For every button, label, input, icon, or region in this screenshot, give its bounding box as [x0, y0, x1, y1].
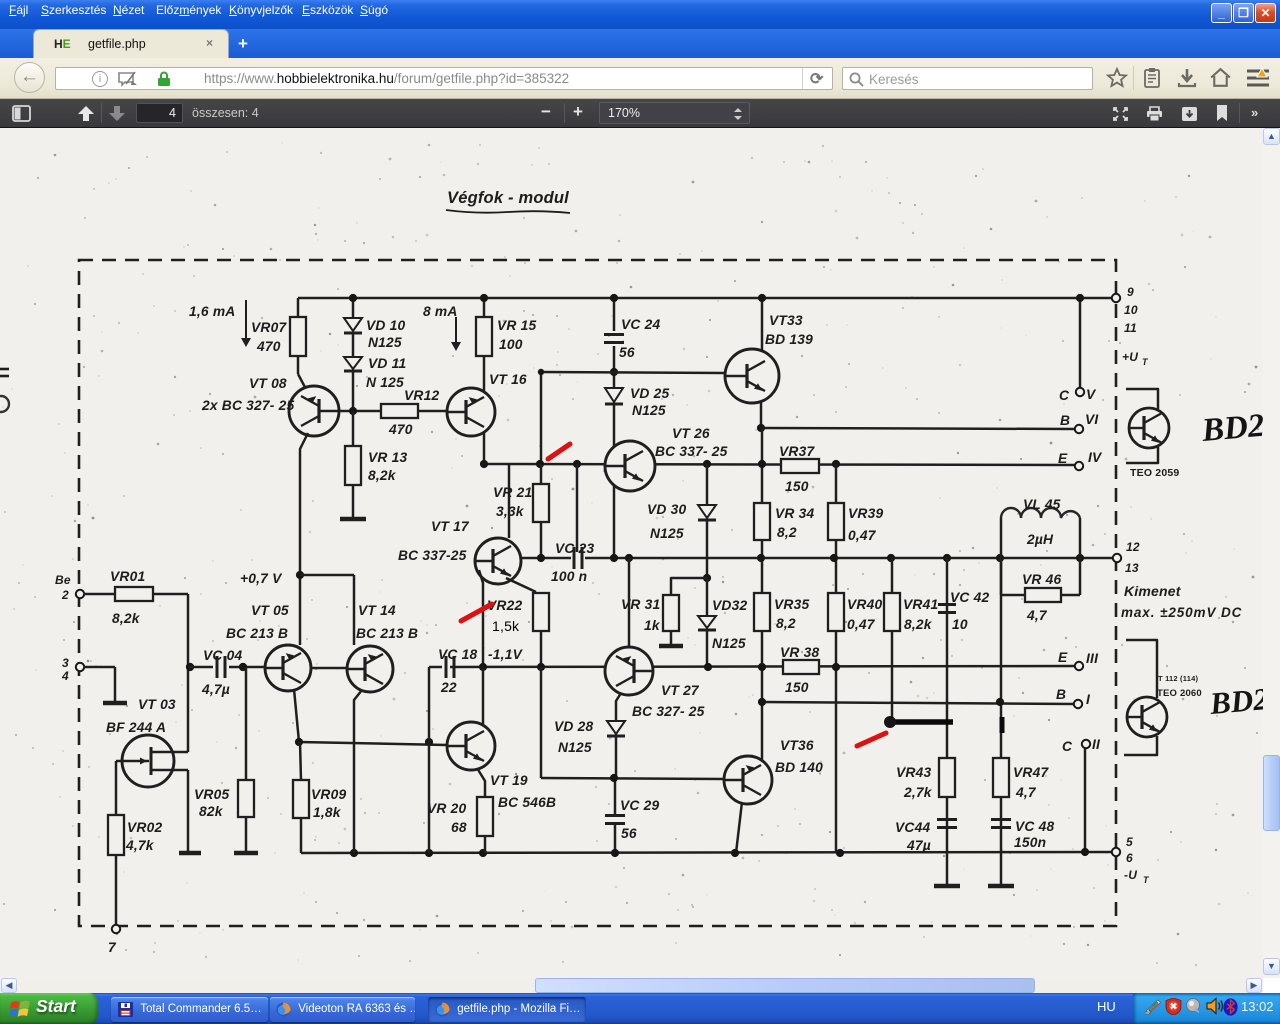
- svg-text:T: T: [1143, 875, 1150, 885]
- svg-text:4,7: 4,7: [1026, 608, 1048, 623]
- resistor VR07: [251, 317, 306, 356]
- svg-text:max. ±250mV DC: max. ±250mV DC: [1121, 605, 1242, 620]
- wire B I to terminal: [762, 702, 1075, 704]
- node top rail / diode chain: [349, 294, 357, 302]
- svg-text:1,6 mA: 1,6 mA: [189, 304, 235, 319]
- svg-text:VT 27: VT 27: [661, 683, 700, 698]
- diode VD11: [344, 356, 406, 390]
- svg-text:VC 42: VC 42: [950, 590, 989, 605]
- wire right column x762: [761, 428, 764, 760]
- svg-text:VR39: VR39: [848, 506, 883, 521]
- resistor VR39: [828, 503, 883, 543]
- svg-text:B: B: [1060, 413, 1070, 428]
- resistor VR13: [345, 446, 407, 485]
- node VD30/VR31 junction: [703, 574, 711, 582]
- svg-text:12: 12: [1126, 540, 1140, 554]
- svg-text:0,47: 0,47: [847, 617, 876, 632]
- wire VT03 gate to VR02: [116, 761, 122, 815]
- wire x188 column: [172, 594, 188, 852]
- svg-text:VR47: VR47: [1013, 765, 1049, 780]
- terminal 3 4: [61, 656, 84, 683]
- search field: [842, 67, 1093, 90]
- label -1,1V: [488, 647, 524, 662]
- svg-text:82k: 82k: [199, 804, 224, 819]
- svg-text:VR05: VR05: [194, 787, 229, 802]
- svg-text:VT 08: VT 08: [249, 376, 287, 391]
- wire VR02 to terminal 7: [115, 855, 118, 925]
- svg-text:BD2: BD2: [1208, 681, 1263, 721]
- label max 250mV DC: [1121, 605, 1242, 620]
- svg-text:VR01: VR01: [110, 569, 145, 584]
- svg-text:VI: VI: [1085, 412, 1099, 427]
- svg-text:4,7: 4,7: [1015, 785, 1037, 800]
- wire VR13 column and ground: [352, 411, 355, 518]
- wire VT33 emitter down: [760, 402, 763, 428]
- svg-text:VD 28: VD 28: [554, 719, 593, 734]
- external transistor TEO 2060: [1124, 640, 1202, 755]
- svg-text:47µ: 47µ: [906, 838, 931, 853]
- rail E IV wire: [484, 464, 1076, 465]
- browser window title/menu bar: [0, 0, 1280, 29]
- capacitor VC29: [605, 798, 659, 841]
- svg-text:4: 4: [61, 669, 69, 683]
- resistor VR12: [381, 388, 439, 437]
- resistor VR47: [993, 758, 1049, 800]
- svg-text:T: T: [1142, 357, 1149, 367]
- capacitor VC04: [201, 648, 242, 697]
- wire VR15 column: [483, 298, 486, 464]
- wire VT05 to VT14 link: [311, 667, 347, 670]
- system tray: [1133, 993, 1280, 1024]
- rail to output terminal 12 13: [1113, 540, 1140, 575]
- svg-text:13: 13: [1125, 561, 1139, 575]
- svg-text:470: 470: [388, 422, 413, 437]
- resistor VR05: [194, 780, 254, 819]
- vertical scrollbar: [1263, 128, 1280, 978]
- svg-text:III: III: [1086, 651, 1099, 666]
- node x541 top: [538, 369, 544, 375]
- start button: [0, 993, 98, 1024]
- resistor VR40: [828, 593, 882, 632]
- svg-text:VC 23: VC 23: [555, 541, 594, 556]
- svg-text:BC 213 B: BC 213 B: [226, 626, 288, 641]
- tab bar: [0, 29, 1280, 58]
- svg-text:BF 244 A: BF 244 A: [106, 720, 166, 735]
- svg-text:IV: IV: [1088, 450, 1103, 465]
- svg-text:VR41: VR41: [903, 597, 938, 612]
- toolbar icons: [1105, 66, 1129, 90]
- svg-text:56: 56: [619, 345, 635, 360]
- capacitor VC44: [895, 820, 957, 854]
- svg-text:4,7k: 4,7k: [125, 838, 155, 853]
- svg-text:VR40: VR40: [847, 597, 882, 612]
- svg-text:8,2k: 8,2k: [368, 468, 397, 483]
- svg-text:7: 7: [108, 940, 117, 955]
- svg-text:N125: N125: [558, 740, 592, 755]
- node VC24 bottom junction: [610, 368, 618, 376]
- svg-text:BC 337-25: BC 337-25: [398, 548, 467, 563]
- capacitor VC18: [438, 647, 477, 695]
- wire input to VR01: [84, 593, 188, 596]
- svg-text:150n: 150n: [1014, 835, 1046, 850]
- wire VT17 base down: [479, 570, 483, 667]
- wire VR05 column: [234, 667, 258, 853]
- node diode chain / base wire: [349, 407, 357, 415]
- svg-text:100 n: 100 n: [551, 569, 587, 584]
- node top rail / VT33: [758, 294, 766, 302]
- svg-text:BC 337- 25: BC 337- 25: [655, 444, 728, 459]
- wire VC24 column: [613, 298, 616, 447]
- transistor VT36: [724, 738, 823, 804]
- svg-text:BC 327- 25: BC 327- 25: [632, 704, 705, 719]
- svg-text:VR 46: VR 46: [1022, 572, 1061, 587]
- ground below VR13: [340, 517, 366, 522]
- svg-text:10: 10: [1124, 303, 1138, 317]
- transistor VT05: [226, 603, 311, 691]
- wire drop x577 to VC23: [576, 464, 579, 552]
- language indicator: [1097, 999, 1116, 1014]
- svg-text:Kimenet: Kimenet: [1124, 583, 1182, 599]
- wire column x1001: [1000, 558, 1003, 884]
- svg-text:2: 2: [61, 588, 69, 602]
- svg-text:VD 30: VD 30: [647, 502, 686, 517]
- svg-text:VC 48: VC 48: [1015, 819, 1054, 834]
- svg-text:VR 20: VR 20: [427, 801, 466, 816]
- current label 8 mA with arrow: [423, 304, 461, 351]
- svg-text:10: 10: [952, 617, 968, 632]
- wire +0,7V branch to VT14: [300, 575, 354, 645]
- svg-text:2x BC 327- 25: 2x BC 327- 25: [201, 398, 294, 413]
- svg-text:VT 14: VT 14: [358, 603, 396, 618]
- svg-text:100: 100: [499, 337, 523, 352]
- svg-text:4,7µ: 4,7µ: [201, 682, 230, 697]
- svg-text:2,7k: 2,7k: [903, 785, 933, 800]
- wire VD28 column: [615, 693, 621, 853]
- node +0,7V junction: [296, 571, 304, 579]
- diode VD10: [344, 318, 405, 350]
- wire VR22 bottom: [540, 631, 543, 667]
- svg-text:3: 3: [62, 656, 69, 670]
- svg-text:VR37: VR37: [779, 444, 815, 459]
- svg-text:8 mA: 8 mA: [423, 304, 458, 319]
- svg-text:5: 5: [1126, 835, 1133, 849]
- input terminal Be 2: [55, 573, 84, 602]
- wire mid link to VT33 base: [541, 372, 725, 373]
- node top rail / VC24: [610, 294, 618, 302]
- label Kimenet: [1124, 583, 1182, 599]
- resistor VR43: [896, 758, 955, 800]
- thick pen annotation wire: [884, 716, 1002, 733]
- svg-text:-U: -U: [1124, 868, 1137, 882]
- svg-text:8,2: 8,2: [776, 616, 796, 631]
- transistor VT26: [605, 426, 728, 491]
- wire VR07 column: [298, 298, 307, 391]
- wire VT17 collector: [508, 464, 511, 538]
- ground below VR43 chain: [934, 884, 960, 889]
- wire VT08 collector down: [300, 433, 308, 645]
- svg-text:Végfok - modul: Végfok - modul: [447, 189, 569, 207]
- svg-text:C: C: [1062, 739, 1073, 754]
- svg-text:VR35: VR35: [774, 597, 809, 612]
- transistor VT33: [725, 313, 813, 403]
- svg-text:VD 10: VD 10: [366, 318, 405, 333]
- inductor VL45: [1001, 497, 1080, 558]
- resistor VR31 with ground: [621, 578, 707, 646]
- svg-text:8,2k: 8,2k: [904, 617, 933, 632]
- nodes on E IV rail: [480, 460, 840, 468]
- back button: [14, 62, 45, 93]
- svg-text:VT 05: VT 05: [251, 603, 289, 618]
- svg-text:N 125: N 125: [366, 375, 404, 390]
- svg-text:VT 26: VT 26: [672, 426, 710, 441]
- nodes on output rail: [537, 554, 1084, 562]
- transistor VT16: [447, 372, 527, 436]
- svg-text:VT 19: VT 19: [490, 773, 528, 788]
- resistor VR02: [108, 815, 162, 855]
- resistor VR34: [754, 503, 814, 540]
- svg-text:VR09: VR09: [311, 787, 346, 802]
- horizontal scrollbar: [0, 978, 1263, 993]
- transistor VT03 JFET: [106, 697, 176, 787]
- svg-text:BD2: BD2: [1200, 408, 1263, 449]
- svg-text:N125: N125: [650, 526, 684, 541]
- resistor VR38 on rail: [780, 645, 819, 695]
- wire VT19 base rail: [299, 742, 447, 745]
- svg-text:8,2k: 8,2k: [112, 611, 141, 626]
- current label 1,6 mA with arrow: [189, 300, 251, 347]
- svg-text:150: 150: [785, 479, 809, 494]
- svg-text:2µH: 2µH: [1026, 532, 1054, 547]
- wire VT08 base to VR12: [339, 410, 447, 413]
- svg-text:VC 29: VC 29: [620, 798, 659, 813]
- svg-text:6: 6: [1126, 851, 1133, 865]
- svg-text:VC 04: VC 04: [203, 648, 242, 663]
- capacitor VC24: [604, 317, 660, 360]
- node VR05 top: [239, 663, 247, 671]
- diode VD25: [605, 386, 669, 418]
- rail E III wire: [429, 666, 1076, 667]
- diode VD28: [554, 719, 625, 755]
- svg-text:BD 140: BD 140: [775, 760, 823, 775]
- svg-text:VR 15: VR 15: [497, 318, 536, 333]
- terminal 9 10 11 +UT: [1112, 285, 1149, 367]
- svg-text:22: 22: [440, 680, 457, 695]
- resistor VR35: [754, 593, 809, 631]
- navigation toolbar: [0, 58, 1280, 99]
- svg-text:56: 56: [621, 826, 637, 841]
- diode VD32: [698, 578, 747, 667]
- svg-text:VC44: VC44: [895, 820, 930, 835]
- svg-text:E: E: [1058, 650, 1068, 665]
- terminal 7: [108, 925, 120, 955]
- svg-text:II: II: [1092, 737, 1101, 752]
- bottom rail -UT: [301, 852, 1114, 853]
- svg-text:VD32: VD32: [712, 598, 747, 613]
- svg-text:VT 03: VT 03: [138, 697, 176, 712]
- svg-text:VC 18: VC 18: [438, 647, 477, 662]
- resistor VR41: [884, 558, 938, 722]
- svg-text:+0,7 V: +0,7 V: [240, 571, 283, 586]
- resistor VR37 on rail: [779, 444, 819, 494]
- svg-text:VR07: VR07: [251, 320, 287, 335]
- terminal C II: [1062, 737, 1101, 754]
- wire column x836: [835, 464, 838, 853]
- svg-text:T 112 (114): T 112 (114): [1158, 674, 1198, 683]
- nodes on E III rail: [186, 663, 840, 671]
- external transistor TEO 2059: [1126, 389, 1179, 479]
- svg-text:VR12: VR12: [404, 388, 439, 403]
- node VT33 emitter / B wire: [757, 424, 765, 432]
- transistor VT14: [347, 603, 418, 692]
- svg-text:VR 38: VR 38: [780, 645, 819, 660]
- resistor VR21: [493, 464, 549, 558]
- terminal B VI: [1060, 412, 1099, 433]
- nodes on VT19 base rail: [295, 738, 433, 746]
- wire VT26 emitter down: [613, 486, 616, 558]
- wire diode chain column: [352, 298, 355, 410]
- resistor VR46: [1001, 558, 1080, 623]
- ground stub below VT03 source: [179, 851, 201, 856]
- wire top +UT rail: [298, 297, 1114, 300]
- svg-text:150: 150: [785, 680, 809, 695]
- nodes on B I wire: [758, 698, 1004, 706]
- label +0,7 V: [240, 571, 283, 586]
- wire VT17 emitter to VR22: [506, 578, 536, 592]
- svg-text:470: 470: [256, 339, 281, 354]
- red pen mark near node: [548, 444, 570, 459]
- windows xp taskbar: [0, 993, 1280, 1024]
- ground below VR47 chain: [988, 884, 1014, 889]
- terminal B I: [1056, 687, 1091, 708]
- scan edge fragments left: [0, 369, 9, 412]
- svg-text:C: C: [1059, 388, 1070, 403]
- wire VT27 collector up: [628, 558, 631, 647]
- resistor VR15: [476, 317, 536, 356]
- transistor VT08: [201, 376, 339, 436]
- svg-text:0,47: 0,47: [848, 528, 877, 543]
- handwritten BD2 lower: [1208, 681, 1270, 721]
- handwritten BD2 upper: [1200, 408, 1266, 449]
- resistor VR22 with red mark and 1,5k note: [461, 593, 549, 634]
- svg-text:8,2: 8,2: [777, 525, 797, 540]
- svg-text:VT33: VT33: [769, 313, 803, 328]
- wire B VI to terminal: [761, 428, 1075, 429]
- svg-text:3,3k: 3,3k: [496, 504, 525, 519]
- svg-text:E: E: [1058, 451, 1068, 466]
- diode VD30: [647, 464, 716, 578]
- svg-text:+U: +U: [1122, 350, 1138, 364]
- terminal C V: [1059, 294, 1097, 403]
- red pen mark lower: [857, 733, 886, 746]
- svg-text:VR 13: VR 13: [368, 450, 407, 465]
- svg-text:VT36: VT36: [780, 738, 814, 753]
- wire x542 drop to VT36 base wire: [540, 667, 543, 778]
- svg-text:N125: N125: [712, 636, 746, 651]
- svg-text:Be: Be: [55, 573, 71, 587]
- transistor VT17: [398, 519, 521, 584]
- capacitor VC23: [551, 541, 594, 584]
- svg-text:VT 16: VT 16: [489, 372, 527, 387]
- svg-text:11: 11: [1124, 321, 1137, 335]
- svg-text:BC 546B: BC 546B: [498, 795, 556, 810]
- task buttons: [111, 997, 268, 1022]
- node VD28 / base wire: [610, 774, 618, 782]
- svg-text:1,8k: 1,8k: [313, 805, 342, 820]
- capacitor VC42 column: [938, 558, 989, 884]
- svg-text:VC 24: VC 24: [621, 317, 660, 332]
- resistor VR01: [110, 569, 153, 626]
- svg-text:VR 31: VR 31: [621, 597, 660, 612]
- svg-text:1,5k: 1,5k: [492, 618, 520, 634]
- svg-text:BD 139: BD 139: [765, 332, 813, 347]
- transistor VT19: [447, 667, 556, 810]
- svg-text:VD 25: VD 25: [630, 386, 669, 401]
- svg-text:N125: N125: [632, 403, 666, 418]
- node top rail / VR15: [480, 294, 488, 302]
- svg-text:VT 17: VT 17: [431, 519, 470, 534]
- svg-text:TEO 2060: TEO 2060: [1157, 688, 1202, 699]
- wire C II column: [1084, 748, 1087, 852]
- pdf.js toolbar: [0, 99, 1280, 128]
- svg-text:-1,1V: -1,1V: [488, 647, 524, 662]
- wire VT36 base rail 778: [541, 778, 724, 779]
- wire terminal 3 4 to ground: [84, 667, 127, 703]
- wire VT33 collector: [761, 298, 764, 350]
- capacitor VC48: [991, 819, 1054, 850]
- svg-text:BC 213 B: BC 213 B: [356, 626, 418, 641]
- node VR01/VC04 junction: [186, 663, 194, 671]
- dashed module border: [79, 260, 1116, 926]
- resistor VR09: [293, 742, 346, 853]
- svg-text:N125: N125: [368, 335, 402, 350]
- wire VC18 column x429: [428, 667, 431, 853]
- terminal 5 6 -UT: [1112, 835, 1150, 885]
- terminal E III: [1058, 650, 1099, 670]
- wire VC04 row: [188, 666, 265, 669]
- svg-text:9: 9: [1127, 285, 1134, 299]
- transistor VT27: [605, 647, 705, 719]
- output rail 558: [521, 557, 1114, 560]
- svg-text:VD 11: VD 11: [368, 356, 406, 371]
- wire drop x541 to node: [540, 372, 543, 464]
- wire VT05 emitter down: [294, 689, 299, 742]
- svg-text:I: I: [1086, 692, 1091, 707]
- resistor VR20: [427, 768, 493, 853]
- svg-text:1k: 1k: [644, 618, 661, 633]
- svg-text:VR 21: VR 21: [493, 485, 532, 500]
- svg-text:VR 34: VR 34: [775, 506, 814, 521]
- wire VT14 emitter down: [354, 690, 362, 853]
- svg-text:68: 68: [451, 820, 467, 835]
- svg-text:VR43: VR43: [896, 765, 931, 780]
- nodes on bottom rail: [350, 848, 1089, 857]
- url field: [55, 67, 833, 90]
- terminal E IV: [1058, 450, 1103, 470]
- svg-text:VL 45: VL 45: [1023, 497, 1061, 512]
- svg-text:VR02: VR02: [127, 820, 162, 835]
- schematic title Végfok-modul: [446, 189, 570, 213]
- svg-text:V: V: [1086, 387, 1097, 402]
- wire VT36 emitter: [736, 802, 742, 853]
- svg-text:B: B: [1056, 687, 1066, 702]
- svg-text:TEO 2059: TEO 2059: [1130, 467, 1179, 479]
